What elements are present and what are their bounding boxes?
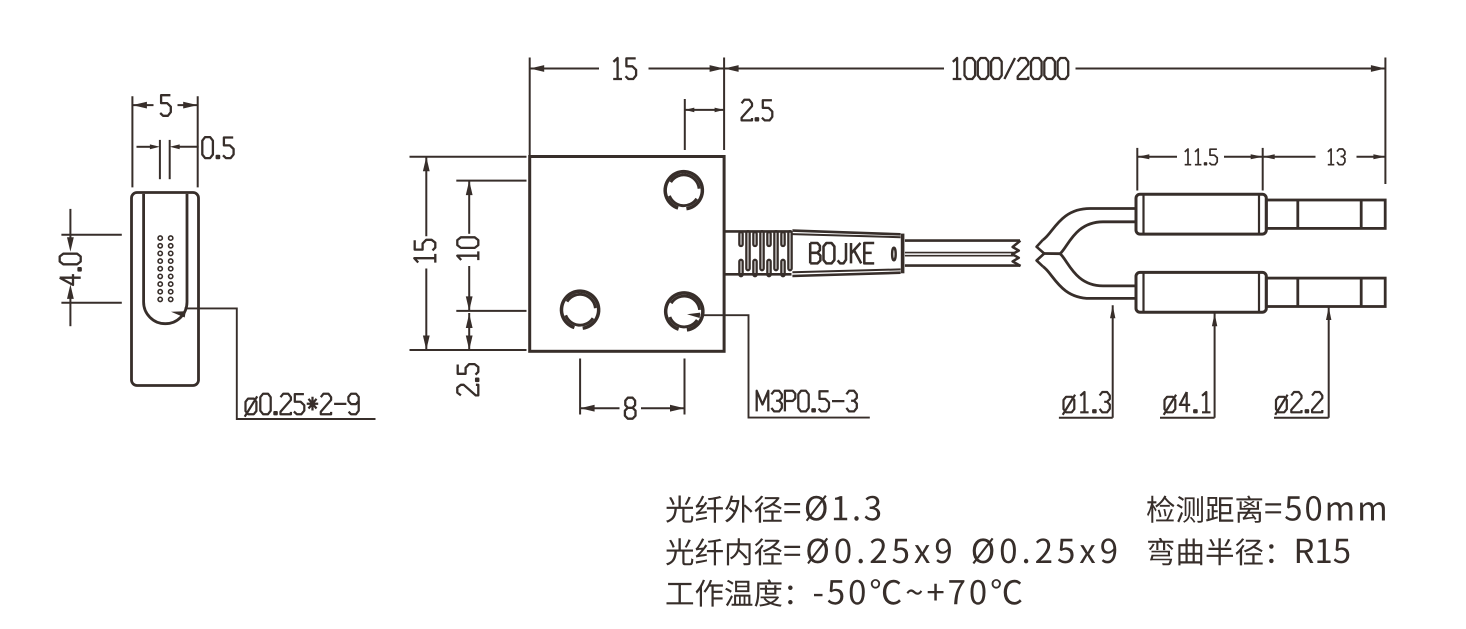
spec text: second fiber count xyxy=(973,538,1117,564)
left view: fiber slot with round bottom xyxy=(144,194,187,324)
dimension 15 (top width) xyxy=(529,58,531,156)
dimension 10 (hole spacing vertical) xyxy=(456,180,526,182)
gland body (tapered cylinder) xyxy=(792,231,900,235)
spec text: fiber inner diameter xyxy=(666,538,951,566)
leader to hole: label M3P0.5-3 xyxy=(687,313,700,318)
dimension 13 (tip length) xyxy=(1263,156,1316,158)
threaded hole top-right xyxy=(665,172,702,209)
label BOJKE on body xyxy=(810,243,874,263)
spec text: working temperature xyxy=(667,579,1022,607)
spec text: bend radius xyxy=(1148,538,1349,566)
small slot on body xyxy=(892,248,896,261)
Y-split chevron edge xyxy=(1037,240,1045,267)
threaded hole bottom-right xyxy=(666,293,703,330)
dimension 4.0 (fiber window length) xyxy=(61,234,121,236)
lower fiber end: sleeve and tip barrel xyxy=(1136,272,1266,312)
leader ø1.3 (bare fiber) xyxy=(1110,305,1115,318)
dimension 1000/2000 (cable length) xyxy=(724,68,944,70)
dimension 2.5 (bottom hole offset) xyxy=(468,313,470,350)
leader to slot: label Ø0.25*2-9 xyxy=(171,311,186,317)
corrugated strain relief xyxy=(746,231,749,270)
dimension 11.5 (sleeve length) xyxy=(1136,148,1138,191)
gland boundary lines xyxy=(726,230,792,233)
left view: sensor head body outline xyxy=(132,193,199,386)
duplex cable lines xyxy=(905,239,1020,242)
shared extension line xyxy=(723,58,725,151)
dimension 15 (left height) xyxy=(410,156,527,158)
front view: 15x15 sensor body xyxy=(530,157,724,352)
dimension 8 (bottom hole spacing) xyxy=(579,359,581,415)
spec text: sensing distance xyxy=(1147,496,1385,523)
dimension 2.5 (hole offset from edge) xyxy=(684,99,686,150)
leader ø4.1 (sleeve) xyxy=(1212,313,1217,326)
dimension 0.5 (fiber column pitch) xyxy=(159,140,161,179)
left view: 2x9 fiber holes xyxy=(158,236,162,240)
dimension 5 (head width) xyxy=(131,96,133,187)
threaded hole bottom-left xyxy=(561,291,598,328)
cable break jag (left) xyxy=(1012,241,1020,266)
Y-split branch tubes xyxy=(1043,209,1137,240)
spec text: fiber outer diameter xyxy=(666,495,880,523)
upper fiber end: sleeve and tip barrel xyxy=(1136,194,1266,234)
leader ø2.2 (tip) xyxy=(1326,307,1331,320)
